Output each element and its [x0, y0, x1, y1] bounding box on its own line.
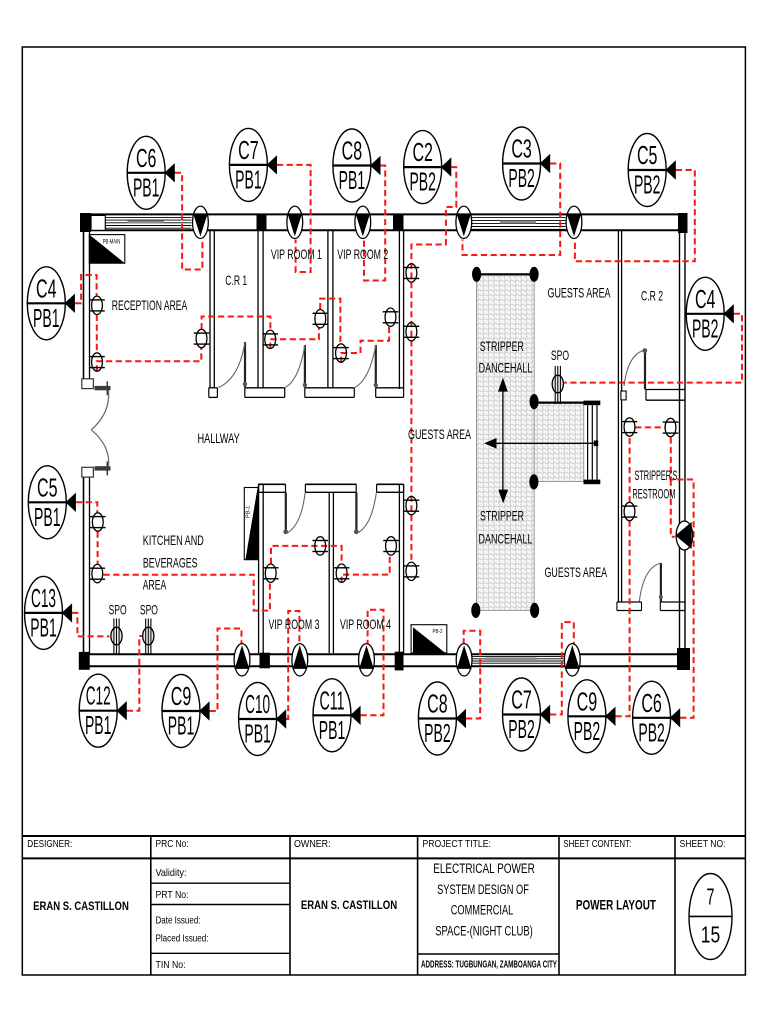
svg-text:PB1: PB1 — [33, 305, 60, 333]
wall VIP1/VIP2 — [327, 231, 329, 389]
svg-text:C9: C9 — [171, 683, 192, 711]
callout C5/PB1 — [28, 466, 76, 539]
stage black bar bottom — [584, 480, 601, 485]
svg-text:C6: C6 — [136, 145, 157, 173]
fixture top x463.8 — [456, 206, 472, 238]
callout C13/PB1 — [25, 576, 73, 649]
door VIP3 — [283, 492, 305, 534]
svg-text:C10: C10 — [245, 691, 270, 719]
door VIP2 — [355, 345, 378, 388]
svg-text:PB-MAIN: PB-MAIN — [103, 239, 121, 246]
fixture bottom x464.1 — [456, 644, 472, 676]
svg-text:DANCEHALL: DANCEHALL — [479, 531, 533, 547]
fixture bottom x366.5 — [359, 644, 375, 676]
svg-text:GUESTS AREA: GUESTS AREA — [408, 426, 471, 442]
outlet (411.4,272.9) — [404, 264, 420, 282]
bottom stubs of top rooms — [209, 387, 218, 389]
red homerun C8/PB2 — [464, 631, 481, 719]
fixture bottom x299.8 — [292, 644, 308, 676]
red homerun C7/PB2 — [550, 622, 574, 714]
door C.R2 — [624, 348, 647, 389]
outlet (629.5,427) — [622, 418, 638, 436]
project title address row line — [418, 953, 559, 955]
fixture bottom x572.3 — [564, 644, 580, 676]
callout C12/PB1 — [79, 674, 127, 747]
PB-2 panel — [413, 627, 445, 653]
callout C6/PB2 — [633, 681, 681, 754]
stripper dancehall hatched strip — [477, 274, 535, 610]
red VIP3/4 chain — [271, 546, 342, 564]
outlet (320.3,318.7) — [313, 310, 329, 328]
svg-text:PB1: PB1 — [244, 721, 271, 749]
red homerun C2/PB2 to corridor riser — [411, 167, 456, 562]
svg-text:C8: C8 — [427, 691, 448, 719]
outlet (670.5,427.5) — [663, 418, 679, 436]
columns — [80, 213, 91, 232]
door restroom — [639, 563, 663, 602]
svg-text:Placed Issued:: Placed Issued: — [156, 934, 209, 945]
callout C10/PB1 — [239, 683, 287, 756]
outlet (411.4,331.7) — [404, 323, 420, 341]
svg-text:PB-1: PB-1 — [245, 506, 251, 518]
red reception chain — [96, 315, 98, 353]
entrance double door — [82, 379, 111, 477]
svg-text:PB1: PB1 — [34, 504, 61, 532]
outlet (411.4,571.3) — [404, 562, 420, 580]
wall corridor lower — [398, 484, 400, 653]
stage right extension hatch — [534, 403, 584, 482]
outlet (320.2,545.9) — [312, 537, 328, 555]
C.R2 bottom wall — [646, 389, 685, 391]
svg-text:PB2: PB2 — [638, 719, 665, 747]
svg-text:Date Issued:: Date Issued: — [156, 916, 201, 927]
svg-text:ERAN S. CASTILLON: ERAN S. CASTILLON — [301, 898, 397, 912]
svg-text:PB-2: PB-2 — [433, 629, 443, 635]
dancehall corner dots — [472, 267, 481, 282]
svg-text:PRC No:: PRC No: — [156, 839, 189, 850]
svg-text:VIP ROOM 2: VIP ROOM 2 — [337, 246, 388, 262]
outlet (97,305.3) — [89, 296, 105, 314]
door C.R1 — [218, 342, 247, 388]
svg-text:STRIPPER'S: STRIPPER'S — [634, 467, 677, 483]
svg-text:POWER LAYOUT: POWER LAYOUT — [576, 897, 656, 913]
callout C5/PB2 — [628, 134, 676, 207]
svg-text:C7: C7 — [238, 137, 259, 165]
outlet (629.5,511.5) — [622, 502, 638, 520]
svg-text:VIP ROOM 4: VIP ROOM 4 — [340, 616, 391, 632]
dance floor double arrow vertical — [502, 390, 504, 492]
callout C11/PB1 — [313, 679, 361, 752]
svg-text:PRT No:: PRT No: — [156, 890, 189, 901]
svg-text:DANCEHALL: DANCEHALL — [479, 360, 533, 376]
svg-text:SPO: SPO — [551, 347, 569, 363]
svg-text:PB1: PB1 — [339, 167, 366, 195]
svg-text:7: 7 — [707, 884, 715, 910]
wall C.R1/VIP1 — [257, 231, 259, 389]
svg-text:VIP ROOM 1: VIP ROOM 1 — [271, 246, 322, 262]
outlet (390.5,317.2) — [383, 308, 399, 326]
top wall — [80, 213, 688, 215]
outlet (270.2,339.3) — [262, 330, 278, 348]
svg-text:ELECTRICAL POWER: ELECTRICAL POWER — [433, 861, 535, 876]
callout C3/PB2 — [503, 127, 551, 200]
svg-text:C11: C11 — [320, 687, 345, 715]
fixture top x574.0 — [566, 206, 582, 238]
red homerun C6/PB2 — [671, 437, 694, 718]
wall VIP3/VIP4 — [328, 492, 330, 653]
svg-text:OWNER:: OWNER: — [294, 839, 331, 850]
wall C.R1 left — [209, 231, 211, 389]
wall VIP2 right (corridor upper) — [398, 231, 400, 390]
svg-text:PB2: PB2 — [424, 720, 451, 748]
svg-text:DESIGNER:: DESIGNER: — [27, 839, 72, 850]
svg-text:TIN No:: TIN No: — [156, 960, 186, 971]
svg-text:STRIPPER: STRIPPER — [480, 508, 524, 524]
svg-text:PB2: PB2 — [508, 716, 535, 744]
callout C7/PB1 — [229, 128, 277, 201]
svg-text:KITCHEN AND: KITCHEN AND — [143, 532, 204, 548]
callout C7/PB2 — [503, 678, 551, 751]
left wall lower — [83, 477, 85, 655]
right wall fixture — [675, 521, 692, 550]
callout C8/PB1 — [333, 129, 381, 202]
fixture bottom x242.0 — [234, 644, 250, 676]
dancehall top edge line — [477, 273, 534, 275]
outlet (411.4,505.6) — [404, 496, 420, 514]
red homerun C8/PB1 — [364, 166, 385, 281]
svg-text:15: 15 — [701, 921, 721, 947]
restroom bottom wall — [617, 601, 642, 603]
svg-text:VIP ROOM 3: VIP ROOM 3 — [269, 616, 320, 632]
svg-text:ADDRESS: TUGBUNGAN, ZAMBOANGA: ADDRESS: TUGBUNGAN, ZAMBOANGA CITY — [421, 960, 557, 971]
red homerun C12/PB1 — [127, 636, 146, 711]
svg-text:C3: C3 — [511, 136, 532, 164]
SPO outlet kitchen 2 — [143, 619, 154, 654]
svg-text:RECEPTION AREA: RECEPTION AREA — [112, 297, 188, 313]
callout C4/PB1 — [27, 267, 75, 340]
PB-1 panel — [245, 484, 258, 560]
svg-text:SHEET NO:: SHEET NO: — [680, 839, 726, 850]
svg-text:ERAN S. CASTILLON: ERAN S. CASTILLON — [33, 899, 129, 913]
svg-text:BEVERAGES: BEVERAGES — [143, 555, 198, 571]
red homerun C9/PB1 — [210, 629, 242, 712]
svg-text:SYSTEM DESIGN OF: SYSTEM DESIGN OF — [437, 882, 529, 897]
svg-text:C.R 1: C.R 1 — [225, 272, 247, 288]
red homerun C13/PB1 — [72, 613, 109, 637]
svg-text:PB1: PB1 — [85, 712, 112, 740]
svg-text:SPACE-(NIGHT CLUB): SPACE-(NIGHT CLUB) — [435, 923, 533, 938]
red homerun C7/PB1 — [277, 165, 311, 272]
svg-text:PB1: PB1 — [235, 166, 262, 194]
outlet (97.8,522) — [90, 513, 106, 531]
callout C4/PB2 — [686, 277, 734, 350]
window 2 glazing — [472, 217, 566, 219]
svg-text:C5: C5 — [37, 474, 58, 502]
callout C9/PB2 — [568, 680, 616, 753]
svg-text:AREA: AREA — [143, 576, 167, 592]
svg-text:C4: C4 — [695, 286, 716, 314]
fixture top x200.4 — [193, 206, 209, 238]
outlet (270.7,573.2) — [263, 564, 279, 582]
PB-MAIN panel — [89, 235, 125, 264]
left wall upper — [83, 214, 85, 378]
outlet (97,362) — [89, 353, 105, 371]
svg-text:PB2: PB2 — [634, 172, 661, 200]
wall kitchen/VIP3 — [258, 484, 260, 654]
svg-text:PB1: PB1 — [30, 614, 57, 642]
svg-text:C2: C2 — [412, 139, 433, 167]
svg-text:C7: C7 — [511, 687, 532, 715]
red homerun C5/PB2 — [575, 170, 695, 261]
right wall — [679, 230, 681, 654]
svg-text:C6: C6 — [641, 690, 662, 718]
svg-text:GUESTS AREA: GUESTS AREA — [548, 285, 611, 301]
callout C8/PB2 — [418, 682, 466, 755]
fixture top x362.8 — [355, 206, 371, 238]
wall C.R2/restroom left — [617, 231, 619, 602]
sheet no circle — [689, 874, 732, 960]
red homerun C11/PB1 — [361, 610, 384, 716]
red homerun C9/PB2 restroom riser — [616, 521, 630, 717]
outlet (341.6,573.2) — [334, 564, 350, 582]
svg-text:GUESTS AREA: GUESTS AREA — [545, 564, 608, 580]
svg-text:PB2: PB2 — [409, 169, 436, 197]
callout C6/PB1 — [127, 136, 175, 209]
svg-text:C5: C5 — [637, 142, 658, 170]
PRC sub rows — [151, 882, 290, 884]
svg-text:PB1: PB1 — [168, 713, 195, 741]
red homerun C6/PB1 — [175, 173, 203, 270]
svg-text:Validity:: Validity: — [156, 868, 187, 879]
stage railing — [587, 405, 589, 479]
svg-text:PB1: PB1 — [133, 174, 160, 202]
svg-text:C.R 2: C.R 2 — [641, 288, 663, 304]
red homerun C4/PB2 long line to stage SPO — [564, 314, 742, 383]
svg-text:C4: C4 — [36, 275, 57, 303]
stage black bar top — [584, 401, 601, 406]
stage top edge line — [534, 402, 584, 404]
dance floor arrow horizontal — [496, 442, 597, 444]
svg-text:COMMERCIAL: COMMERCIAL — [451, 903, 514, 918]
outlet (97.3,573.6) — [90, 564, 106, 582]
VIP3/4 block top wall — [259, 483, 286, 485]
window frame box top-left — [91, 215, 105, 230]
outlet (341,353) — [333, 344, 349, 362]
svg-text:PB2: PB2 — [508, 165, 535, 193]
svg-text:PB2: PB2 — [692, 315, 719, 343]
svg-text:C9: C9 — [577, 688, 598, 716]
red homerun C3/PB2 — [463, 164, 561, 256]
C.R2 door jamb box — [621, 391, 626, 400]
red homerun C10/PB1 — [286, 611, 299, 719]
svg-text:RESTROOM: RESTROOM — [632, 486, 675, 502]
SPO outlet kitchen 1 — [111, 619, 122, 654]
bottom wall — [79, 653, 690, 655]
svg-text:HALLWAY: HALLWAY — [198, 430, 241, 446]
svg-text:C12: C12 — [86, 683, 111, 711]
svg-text:C8: C8 — [342, 138, 363, 166]
svg-text:SHEET CONTENT:: SHEET CONTENT: — [563, 839, 631, 850]
fixture top x294.8 — [287, 206, 303, 238]
callout C2/PB2 — [404, 131, 452, 204]
door VIP1 — [285, 345, 307, 388]
svg-text:C13: C13 — [31, 585, 56, 613]
callout C9/PB1 — [162, 675, 210, 748]
bottom window glazing — [473, 656, 564, 658]
svg-text:SPO: SPO — [140, 602, 158, 618]
red branch to right-wall fixture — [671, 480, 675, 537]
SPO outlet stage — [552, 366, 563, 404]
outlet (201.5,338.5) — [194, 329, 210, 347]
svg-text:PB2: PB2 — [574, 718, 601, 746]
outlet (391,545.9) — [383, 537, 399, 555]
svg-text:SPO: SPO — [109, 602, 127, 618]
red homerun C5/PB1 kitchen chain — [76, 502, 97, 512]
door VIP4 — [354, 492, 377, 534]
svg-text:PB1: PB1 — [319, 717, 346, 745]
svg-text:PROJECT TITLE:: PROJECT TITLE: — [423, 839, 491, 850]
title block frame — [22, 835, 745, 837]
window 1 glazing — [105, 216, 191, 218]
red homerun C4/PB1 — [75, 275, 97, 303]
svg-text:STRIPPER: STRIPPER — [480, 338, 524, 354]
